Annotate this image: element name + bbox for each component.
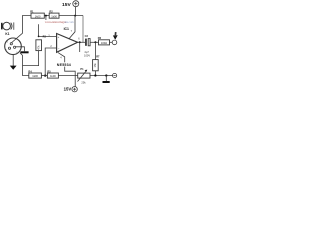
wire: junction stub down — [45, 16, 47, 20]
resistor R1 — [30, 9, 44, 18]
resistor R2 — [49, 9, 59, 18]
supply terminal 15V — [62, 1, 79, 16]
wire: XLR pin3 to chassis ground — [16, 47, 25, 51]
XLR pin 2 — [10, 43, 12, 45]
wire: R7 bottom to bottom row — [94, 71, 96, 76]
svg-text:1k00: 1k00 — [51, 14, 57, 18]
XLR pin 3 — [14, 46, 16, 48]
wire: riser up to R1 — [23, 16, 31, 34]
chassis ground at XLR — [20, 51, 28, 53]
capacitor C2 — [84, 34, 90, 57]
svg-text:1k00: 1k00 — [50, 74, 56, 78]
supply terminal -15V — [64, 87, 78, 92]
svg-text:25k: 25k — [81, 80, 86, 84]
wire: P1 to ground terminal — [90, 75, 113, 77]
svg-text:IC1: IC1 — [64, 27, 69, 31]
op-amp IC1 — [57, 27, 78, 52]
wire: XLR pin2 diagonal up to vertical riser — [11, 33, 22, 43]
XLR connector K1 body — [5, 38, 22, 55]
svg-text:47k: 47k — [36, 45, 40, 50]
resistor R5 — [47, 69, 58, 78]
svg-text:100Ω: 100Ω — [101, 41, 107, 45]
wire: XLR pin1 down — [12, 54, 14, 66]
wire: chassis stub — [105, 76, 107, 82]
svg-text:NE5534: NE5534 — [57, 63, 71, 67]
node R7 tap junction — [94, 41, 96, 43]
svg-text:15k: 15k — [93, 63, 97, 68]
svg-text:1k00: 1k00 — [32, 74, 38, 78]
ground (triangle) — [10, 66, 17, 70]
watermark text — [45, 20, 74, 24]
svg-text:2: 2 — [6, 50, 7, 52]
resistor R3 — [36, 34, 47, 50]
op-amp type label NE5534 — [56, 62, 71, 66]
wire: cap to R6 — [90, 41, 98, 43]
chassis ground bottom — [103, 81, 110, 83]
wire: to op-amp + input — [39, 35, 57, 37]
svg-text:R3: R3 — [43, 34, 47, 38]
svg-text:4µ7: 4µ7 — [84, 50, 89, 54]
wire: R7 from output node down — [94, 42, 96, 59]
wire: op-amp - input — [45, 48, 56, 76]
svg-text:−: − — [58, 46, 60, 50]
wire: pin 4 lead — [58, 53, 75, 87]
wire: R3 bottom to ground row — [23, 51, 39, 66]
resistor R6 — [98, 36, 110, 45]
node + input junction — [38, 36, 40, 38]
wire: XLR shield branch to bottom row — [20, 53, 29, 76]
microphone icon — [1, 22, 14, 30]
svg-text:C2: C2 — [85, 34, 89, 38]
node ground row junction — [94, 74, 96, 76]
ground terminal — [113, 73, 117, 77]
node feedback junction — [44, 74, 46, 76]
potentiometer P1 — [78, 67, 91, 85]
wire: watermark lower riser to + input — [38, 24, 40, 36]
svg-text:15V: 15V — [62, 2, 71, 8]
wire: R6 to output terminal — [110, 41, 113, 43]
wire: R5 to P1 — [58, 75, 77, 77]
wire: pin 7 supply lead — [69, 16, 75, 39]
svg-text:P1: P1 — [80, 67, 84, 71]
resistor R4 — [28, 69, 41, 78]
node chassis junction — [105, 74, 107, 76]
node junction R1/R2 — [45, 15, 47, 17]
svg-text:100V: 100V — [84, 54, 90, 58]
wire: output — [78, 41, 85, 43]
svg-text:3: 3 — [16, 52, 17, 54]
svg-text:R7: R7 — [96, 54, 100, 58]
XLR pin 1 — [8, 47, 10, 49]
svg-text:1: 1 — [7, 42, 8, 44]
svg-text:15V: 15V — [64, 87, 72, 92]
node supply junction — [74, 15, 76, 17]
wire R1-R2 — [44, 15, 49, 17]
output terminal — [112, 40, 117, 45]
svg-text:1k00: 1k00 — [35, 14, 41, 18]
svg-text:ine.com: ine.com — [65, 20, 75, 24]
svg-text:K1: K1 — [5, 32, 9, 36]
wire: feedback down from output — [79, 42, 81, 52]
wire R4-R5 — [41, 75, 47, 77]
wire: supply rail — [59, 15, 83, 17]
node output junction — [79, 41, 81, 43]
output arrow — [113, 35, 118, 39]
resistor R7 — [93, 54, 100, 70]
